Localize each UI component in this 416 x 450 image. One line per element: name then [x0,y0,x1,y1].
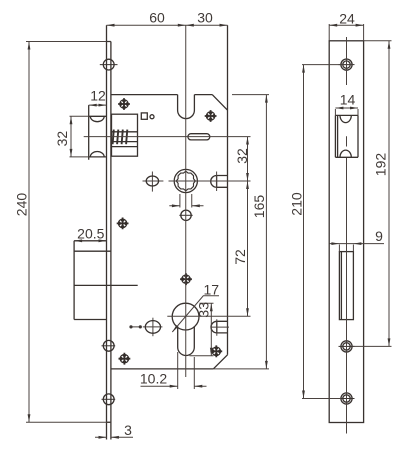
svg-text:72: 72 [232,249,248,265]
svg-text:192: 192 [373,153,389,177]
svg-text:33: 33 [196,302,212,318]
svg-text:10.2: 10.2 [140,371,167,387]
svg-text:32: 32 [54,131,70,147]
svg-text:24: 24 [339,11,355,27]
svg-text:165: 165 [251,195,267,219]
svg-text:210: 210 [289,192,305,216]
svg-text:12: 12 [90,88,106,104]
svg-text:9: 9 [375,228,383,244]
svg-text:30: 30 [197,10,213,26]
svg-text:17: 17 [204,281,220,297]
svg-text:14: 14 [340,92,356,108]
svg-text:20.5: 20.5 [77,226,104,242]
svg-text:3: 3 [124,422,132,438]
svg-text:32: 32 [234,148,250,164]
svg-text:60: 60 [149,10,165,26]
svg-text:240: 240 [14,193,30,217]
